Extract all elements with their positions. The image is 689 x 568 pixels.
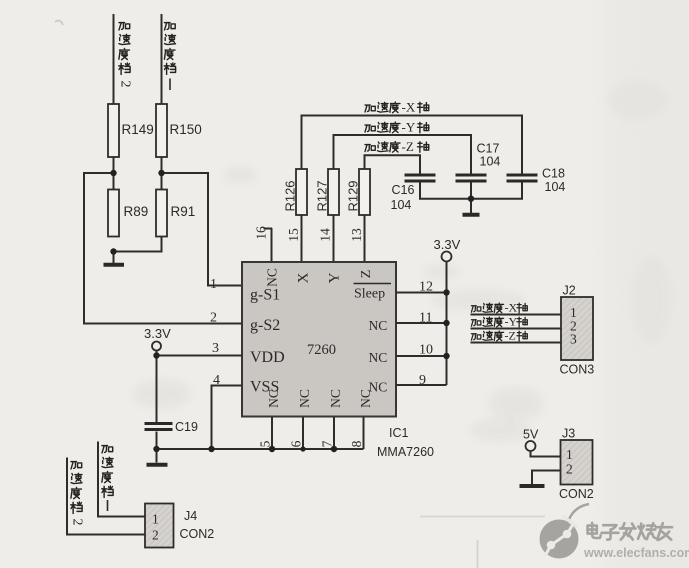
svg-text:CON2: CON2: [559, 487, 594, 501]
svg-text:2: 2: [566, 462, 573, 477]
label 加速度档2 (vertical, top-left): [119, 23, 130, 75]
svg-text:3.3V: 3.3V: [434, 237, 461, 252]
wire: J3 pin 2 to ground: [532, 471, 561, 485]
svg-text:3.3V: 3.3V: [144, 326, 171, 341]
wire: R91 bottom to R89 bottom node: [114, 237, 162, 252]
capacitor C16: [391, 175, 436, 212]
svg-text:104: 104: [545, 180, 566, 194]
wire: 加速度档2 to J4 pin 2: [67, 458, 145, 535]
svg-text:C19: C19: [175, 420, 198, 434]
wire: 加速度-Z轴 to J2 pin 3: [471, 342, 562, 344]
svg-text:g-S1: g-S1: [250, 287, 280, 304]
wire: VSS IC pin 4 to ground rail: [212, 386, 243, 450]
svg-text:g-S2: g-S2: [250, 317, 280, 334]
svg-text:MMA7260: MMA7260: [377, 445, 434, 459]
node: C19/ground rail junction: [153, 446, 159, 452]
capacitor C18: [507, 167, 566, 195]
svg-text:CON2: CON2: [180, 527, 215, 541]
wire: 加速度档一 input lead: [161, 14, 163, 104]
svg-text:1: 1: [152, 512, 159, 527]
svg-text:Y: Y: [327, 272, 343, 283]
svg-text:3: 3: [212, 341, 219, 356]
svg-text:J2: J2: [563, 284, 576, 298]
wire: 加速度档一 to J4 pin 1: [98, 442, 145, 517]
connector J2 CON3: [560, 284, 595, 377]
svg-text:1: 1: [566, 447, 573, 462]
svg-text:R89: R89: [124, 204, 149, 219]
capacitor C17: [456, 142, 501, 182]
node: capacitor rail junction: [468, 196, 474, 202]
svg-text:NC: NC: [369, 318, 388, 333]
wire: capacitor rail to ground: [470, 199, 472, 213]
wire: g-S2 net, node A to IC pin 2: [84, 173, 242, 324]
svg-text:2: 2: [210, 311, 217, 326]
wire: VDD node down to C19: [156, 356, 158, 423]
svg-text:R150: R150: [170, 122, 202, 137]
svg-text:NC: NC: [265, 268, 280, 287]
ground below C19: [147, 463, 168, 467]
svg-text:-Z: -Z: [402, 139, 414, 154]
wire: 加速度档2 input lead: [113, 14, 115, 104]
wire: R126 to IC pin 15: [301, 215, 303, 262]
node: R89 bottom junction: [110, 248, 116, 254]
wire: R150 to node B: [161, 157, 163, 173]
label 加速度-X轴 (filter net): [365, 102, 429, 113]
node: pin12/bus junction: [443, 289, 449, 295]
power 3.3V (right): [434, 237, 461, 262]
power 5V: [523, 428, 539, 452]
pin name Sleep (pin 12) with overline: [354, 283, 392, 285]
node: pin5/rail junction: [269, 446, 275, 452]
connector J4 CON2: [145, 504, 214, 548]
svg-text:6: 6: [289, 440, 304, 447]
wire: node B to R91: [161, 173, 163, 190]
watermark logo (elecfans): [540, 504, 590, 559]
svg-text:J3: J3: [562, 427, 575, 441]
wire: IC pin 7 to rail: [333, 417, 335, 449]
svg-text:C18: C18: [542, 167, 565, 181]
wire: IC pin 5 to rail: [271, 417, 273, 449]
wire: ground rail (bottom): [157, 448, 364, 450]
node: pin11/bus junction: [443, 320, 449, 326]
svg-text:-X: -X: [402, 100, 416, 115]
svg-text:VDD: VDD: [250, 349, 285, 366]
wire: rail to ground symbol: [156, 449, 158, 463]
svg-text:IC1: IC1: [389, 426, 409, 440]
resistor R129: [346, 169, 371, 215]
resistor R127: [315, 169, 340, 215]
svg-text:-Y: -Y: [402, 120, 416, 135]
svg-text:2: 2: [117, 81, 132, 88]
wire: R89 bottom to ground: [113, 252, 115, 264]
svg-text:R149: R149: [122, 122, 154, 137]
svg-text:NC: NC: [358, 389, 373, 408]
svg-text:J4: J4: [184, 509, 197, 523]
wire: C19 to ground rail: [156, 432, 158, 450]
svg-text:1: 1: [210, 277, 217, 292]
capacitor C19: [145, 420, 198, 434]
svg-text:2: 2: [69, 519, 84, 526]
svg-text:7260: 7260: [307, 342, 336, 358]
wire: IC pin 11 to 3.3V bus: [396, 322, 447, 324]
svg-text:13: 13: [349, 228, 364, 242]
svg-text:NC: NC: [297, 389, 312, 408]
ground below capacitor rail: [463, 213, 480, 217]
svg-text:C16: C16: [392, 183, 415, 197]
node A: R149/R89 junction: [110, 170, 116, 176]
label 加速度-Y轴 (J2 pin 2 net): [471, 317, 527, 327]
wire: IC pin 8 to rail: [363, 417, 365, 449]
resistor R150: [156, 104, 202, 157]
wire: IC pin 9 to 3.3V bus: [396, 384, 447, 386]
svg-text:8: 8: [349, 440, 364, 447]
connector J3 CON2: [559, 427, 594, 502]
svg-text:www.elecfans.com: www.elecfans.com: [583, 546, 689, 560]
wire: 加速度-Y轴 to J2 pin 2: [471, 328, 562, 330]
wire: capacitor bottom rail: [420, 183, 522, 199]
svg-text:3: 3: [570, 332, 577, 347]
wire: R127 to IC pin 14: [333, 215, 335, 262]
svg-text:NC: NC: [266, 389, 281, 408]
label 加速度-Y轴 (filter net): [365, 122, 429, 133]
svg-text:R127: R127: [315, 180, 330, 211]
svg-text:15: 15: [286, 228, 301, 242]
wire: 5V to J3 pin 1: [531, 451, 561, 457]
label 加速度档一 (vertical, J4): [102, 446, 113, 498]
wire: g-S1 net, node B to IC pin 1: [162, 173, 243, 286]
label 加速度-Z轴 (J2 pin 3 net): [471, 331, 527, 341]
svg-text:CON3: CON3: [560, 363, 595, 377]
svg-text:-Z: -Z: [505, 329, 516, 343]
label 加速度档2 (vertical, J4): [71, 462, 82, 514]
svg-text:16: 16: [254, 226, 269, 240]
svg-text:-X: -X: [505, 301, 518, 315]
wire: 加速度-Z轴 net, R129 to C16: [365, 155, 421, 173]
svg-text:Z: Z: [359, 270, 374, 279]
svg-text:104: 104: [391, 198, 412, 212]
watermark text 电子发烧友: [588, 523, 672, 540]
wire: 加速度-Y轴 net, R127 to C17: [334, 135, 472, 174]
svg-text:R129: R129: [346, 180, 361, 211]
wire: node A to R89: [113, 173, 115, 190]
label 加速度-Z轴 (filter net): [365, 142, 429, 153]
svg-text:R91: R91: [171, 204, 196, 219]
node: VSS/ground rail junction: [208, 446, 214, 452]
wire: 3.3V bus vertical: [446, 262, 448, 386]
svg-text:R126: R126: [283, 180, 298, 211]
wire: IC pin 16 stub: [271, 228, 273, 262]
wire: IC pin 10 to 3.3V bus: [396, 355, 447, 357]
label 加速度-X轴 (J2 pin 1 net): [471, 303, 527, 313]
node: pin6/rail junction: [300, 446, 305, 451]
op-amp/IC U1: MMA7260 body: [242, 262, 396, 417]
wire: IC pin 12 to 3.3V bus: [396, 292, 447, 294]
svg-text:104: 104: [480, 155, 501, 169]
wire: R149 to node A: [113, 157, 115, 173]
svg-text:5V: 5V: [523, 428, 539, 442]
power 3.3V (left): [144, 326, 171, 351]
svg-text:Sleep: Sleep: [354, 287, 385, 302]
node: pin7/rail junction: [331, 446, 337, 452]
svg-text:NC: NC: [369, 350, 388, 365]
label 加速度档一 (vertical, top-left): [164, 23, 175, 75]
resistor R91: [156, 190, 195, 237]
ground below R89: [104, 263, 125, 267]
resistor R89: [108, 190, 148, 237]
node: VDD/C19 junction: [153, 352, 159, 358]
node B: R150/R91 junction: [158, 170, 164, 176]
node: pin10/bus junction: [443, 353, 449, 359]
wire: VDD net to IC pin 3: [157, 355, 243, 357]
svg-text:X: X: [296, 272, 312, 283]
wire: R129 to IC pin 13: [364, 215, 366, 262]
wire: 3.3V to VDD node: [156, 351, 158, 356]
svg-text:2: 2: [152, 528, 159, 543]
wire: IC pin 6 to rail: [302, 417, 304, 449]
resistor R126: [283, 169, 308, 215]
svg-text:C17: C17: [477, 142, 500, 156]
wire: 加速度-X轴 to J2 pin 1: [471, 314, 562, 316]
wire: 加速度-X轴 net, R126 to C18: [302, 116, 523, 174]
svg-text:14: 14: [318, 228, 333, 242]
resistor R149: [108, 104, 154, 157]
svg-text:-Y: -Y: [505, 315, 518, 329]
ground below J3 pin 2: [520, 484, 545, 488]
svg-text:NC: NC: [328, 389, 343, 408]
